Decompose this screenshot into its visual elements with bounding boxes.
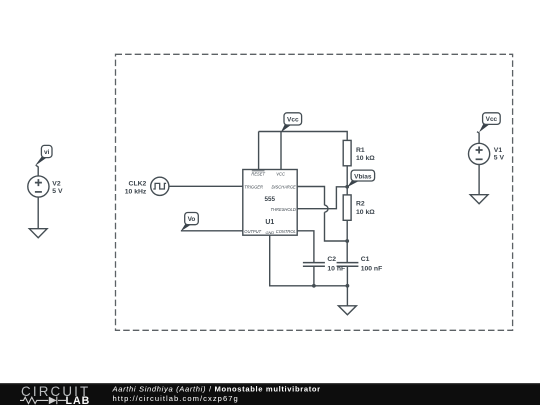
flag vi [35, 145, 52, 166]
flag Vcc (555) [281, 113, 302, 132]
svg-text:TRIGGER: TRIGGER [244, 184, 263, 189]
wire R2 bottom to C1 [346, 220, 348, 262]
svg-text:10 kΩ: 10 kΩ [356, 209, 375, 216]
junction node dots [312, 185, 349, 288]
555 internal pin labels [244, 171, 296, 235]
svg-text:OUTPUT: OUTPUT [244, 229, 261, 234]
clock source CLK2 [151, 177, 169, 195]
svg-text:VCC: VCC [276, 171, 285, 176]
wire R1 bottom to R2 top [346, 166, 348, 195]
svg-text:100 nF: 100 nF [361, 266, 383, 273]
svg-text:GND: GND [265, 230, 274, 235]
svg-text:CONTROL: CONTROL [276, 229, 296, 234]
voltage source V1 [469, 143, 490, 164]
flag Vo [181, 213, 199, 232]
svg-text:http://circuitlab.com/cxzp67g: http://circuitlab.com/cxzp67g [113, 394, 239, 403]
wire Vcc rail to R1 [259, 132, 348, 141]
svg-text:R1: R1 [356, 147, 365, 154]
capacitor C1 [337, 263, 359, 267]
svg-text:CLK2: CLK2 [129, 181, 147, 188]
wire VCC pin stub [280, 132, 282, 170]
svg-text:Vcc: Vcc [287, 117, 299, 124]
node C2 ground junction [312, 284, 316, 288]
svg-text:555: 555 [265, 196, 276, 203]
ground (bottom) [338, 306, 356, 315]
svg-text:Vcc: Vcc [486, 116, 498, 123]
wire OUTPUT to Vo flag [181, 230, 243, 232]
wire CLK2 to TRIGGER [169, 185, 243, 187]
dashed border frame [116, 54, 513, 330]
wire C1 bottom [346, 266, 348, 286]
wire V2 bottom [37, 197, 39, 228]
wire C2 bottom [313, 266, 315, 286]
svg-text:LAB: LAB [66, 395, 91, 405]
capacitor C2 [303, 263, 325, 267]
svg-text:Vbias: Vbias [354, 173, 372, 180]
logo resistor+diode row [20, 397, 66, 405]
node C1 ground junction [346, 284, 350, 288]
wire CONTROL to C2 [297, 231, 314, 263]
svg-text:Aarthi Sindhiya (Aarthi) / Mon: Aarthi Sindhiya (Aarthi) / Monostable mu… [112, 385, 321, 394]
svg-text:RESET: RESET [251, 171, 265, 176]
svg-text:Vo: Vo [188, 216, 196, 223]
svg-text:5 V: 5 V [494, 155, 505, 162]
wire DISCHARGE with hop [297, 187, 324, 206]
svg-text:R2: R2 [356, 201, 365, 208]
flag Vbias [347, 170, 374, 187]
wire GND pin down and bus [270, 235, 348, 286]
svg-text:V1: V1 [494, 147, 503, 154]
wire bus to ground [346, 286, 348, 306]
op 555 IC U1 box [243, 170, 297, 236]
svg-text:10 kHz: 10 kHz [125, 188, 147, 195]
resistor R1 [343, 140, 351, 165]
svg-text:DISCHARGE: DISCHARGE [271, 185, 296, 190]
node discharge junction [345, 239, 349, 243]
svg-text:10 kΩ: 10 kΩ [356, 155, 375, 162]
flag Vcc (V1) [479, 113, 500, 132]
wire THRESHOLD riser [297, 187, 347, 209]
wire RESET pin stub [258, 132, 260, 170]
ground (V1) [470, 195, 488, 204]
ground (V2) [29, 229, 47, 238]
svg-text:vi: vi [44, 149, 50, 156]
svg-text:THRESHOLD: THRESHOLD [271, 207, 296, 212]
svg-text:V2: V2 [52, 180, 61, 187]
svg-text:10 nF: 10 nF [327, 266, 345, 273]
svg-text:5 V: 5 V [52, 188, 63, 195]
svg-text:C2: C2 [327, 256, 336, 263]
svg-text:U1: U1 [265, 219, 274, 226]
svg-text:C1: C1 [361, 256, 370, 263]
wire V1 bottom [478, 165, 480, 195]
footer bar [0, 383, 540, 405]
wire V2 top to vi flag [36, 165, 38, 176]
wire V1 top [477, 132, 479, 144]
node Vbias junction [345, 185, 349, 189]
voltage source V2 [28, 176, 49, 197]
resistor R2 [343, 195, 351, 220]
